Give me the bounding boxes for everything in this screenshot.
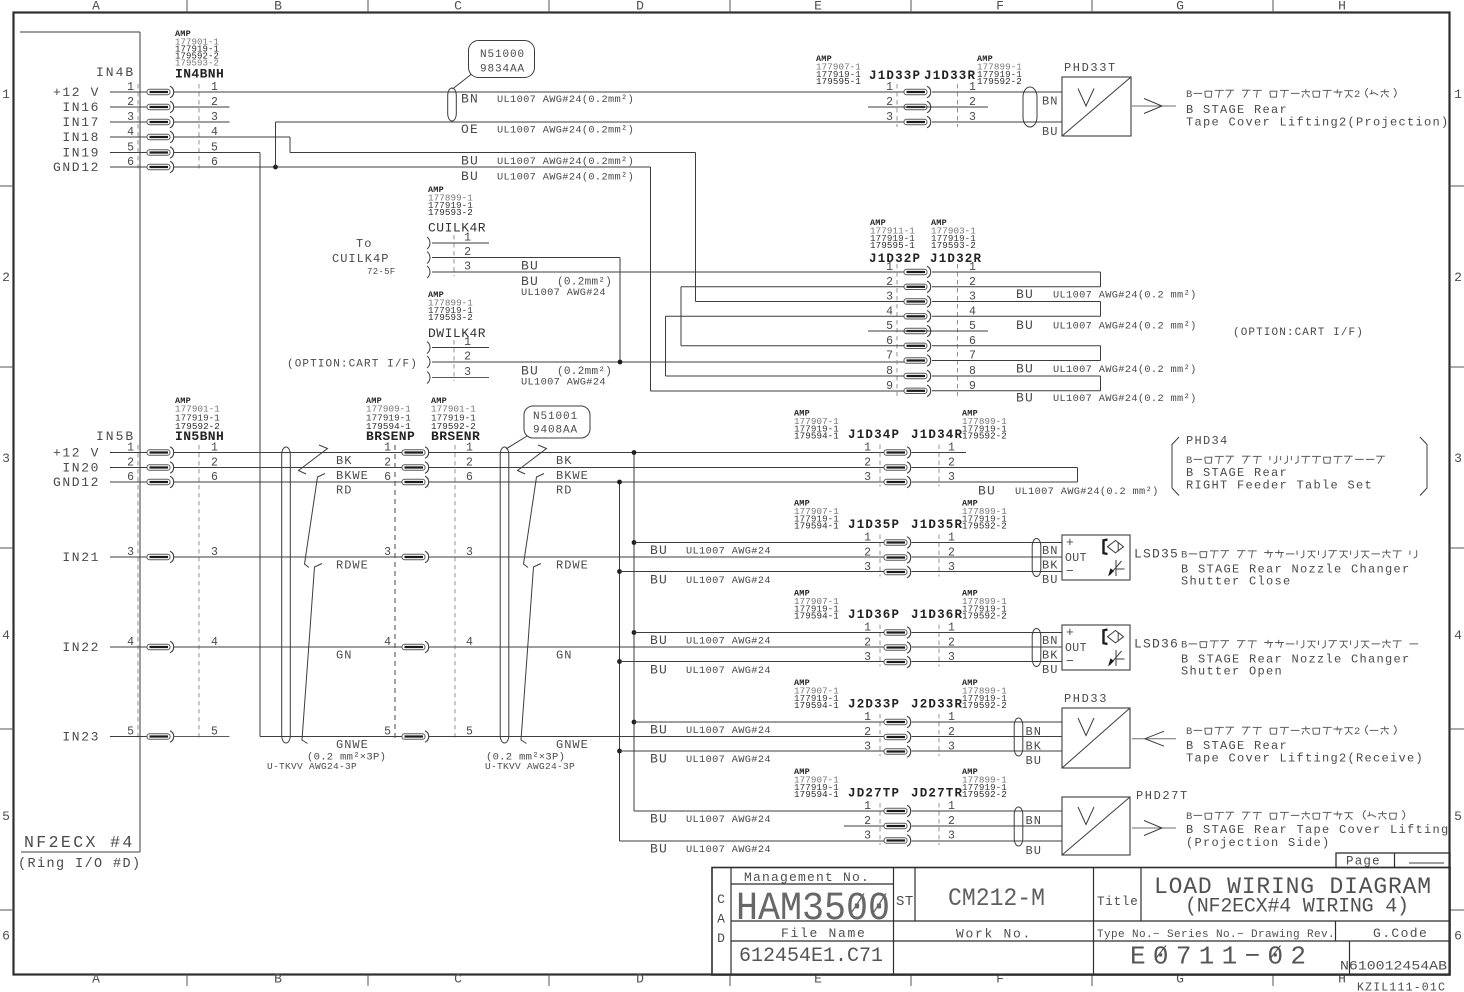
wire label BU at CUILK4R pin2 <box>521 259 539 274</box>
svg-text:1: 1 <box>886 81 893 94</box>
svg-text:J1D33P: J1D33P <box>869 69 921 83</box>
wire JD27TP pin1 feed <box>634 810 884 812</box>
svg-text:Shutter Open: Shutter Open <box>1181 665 1283 679</box>
connector J1D32 pins <box>886 261 976 397</box>
BRSEN pin 2 <box>384 457 473 474</box>
svg-text:BU: BU <box>461 154 479 169</box>
cable spec right U-TKVV <box>485 752 575 773</box>
svg-text:BN: BN <box>1042 95 1058 109</box>
IN4B pin 5 signal IN19 <box>62 142 218 161</box>
wire label BU J1D35 pin1 <box>650 543 771 558</box>
arrow PHD27T output <box>1132 821 1176 836</box>
wire IN23 stub <box>174 736 230 738</box>
wire J1D33 pin2 stub <box>868 106 988 108</box>
wire J1D32R loop pin3-pin4 <box>932 302 1101 317</box>
svg-text:179594-1: 179594-1 <box>794 521 839 532</box>
wire label BU J1D32R row4 <box>1016 391 1197 406</box>
wire to module row y=811 <box>912 810 1063 812</box>
svg-text:ST: ST <box>896 894 914 910</box>
cable bundle marks left <box>299 445 328 744</box>
wire to module row y=841 <box>912 840 1063 842</box>
svg-text:GND12: GND12 <box>53 160 100 175</box>
sheet code KZIL111-01C <box>1357 982 1446 992</box>
svg-text:3: 3 <box>1454 451 1462 466</box>
svg-text:UL1007 AWG#24(0.2 mm²): UL1007 AWG#24(0.2 mm²) <box>1053 320 1197 332</box>
svg-text:LSD36: LSD36 <box>1134 637 1179 652</box>
svg-text:(OPTION:CART I/F): (OPTION:CART I/F) <box>287 359 418 371</box>
label OPTION CART IF right <box>1233 327 1364 339</box>
svg-text:B: B <box>1181 550 1187 562</box>
connector IN5BNH part numbers <box>175 396 224 444</box>
svg-text:N51000: N51000 <box>480 49 525 61</box>
svg-text:H: H <box>1338 972 1346 987</box>
svg-text:BU: BU <box>1016 391 1034 406</box>
wire label BK right <box>556 454 572 468</box>
wire to module row y=571.5 <box>912 571 1063 573</box>
svg-text:+12 V: +12 V <box>53 85 100 100</box>
arrow PHD33T output <box>1132 99 1176 114</box>
wire label BU UL1007 row2 <box>461 169 634 184</box>
svg-text:5: 5 <box>1454 809 1462 824</box>
title NF2ECX4 WIRING 4 <box>1185 896 1409 919</box>
svg-text:BU: BU <box>978 484 996 499</box>
connector CUILK4R pins <box>427 232 471 279</box>
svg-text:3: 3 <box>886 111 893 124</box>
bracket PHD34 left <box>1172 437 1179 496</box>
wire J1D32P pin2-pin6 jumper <box>681 287 904 346</box>
wire J1D34R pin1 stub <box>912 452 967 454</box>
svg-text:UL1007 AWG#24: UL1007 AWG#24 <box>521 377 606 389</box>
svg-text:J1D35R: J1D35R <box>911 518 963 532</box>
IN5B pin 2 signal IN20 <box>62 457 218 476</box>
svg-text:JD27TR: JD27TR <box>911 787 963 801</box>
wire J1D32R loop pin8-pin9 <box>932 376 1101 391</box>
svg-text:179595-1: 179595-1 <box>870 240 915 251</box>
label OPTION CART IF left <box>287 359 418 371</box>
svg-text:−: − <box>1066 654 1074 669</box>
connector DWILK4R pins <box>427 336 471 384</box>
svg-text:179592-2: 179592-2 <box>962 789 1007 800</box>
svg-text:Tape Cover Lifting2(Receive): Tape Cover Lifting2(Receive) <box>1186 752 1424 766</box>
label Ring I/O #D <box>18 857 142 872</box>
svg-text:−: − <box>1066 564 1074 579</box>
svg-text:KZIL111-01C: KZIL111-01C <box>1357 982 1446 992</box>
wire RD distribution vertical <box>619 482 621 841</box>
svg-text:7: 7 <box>886 350 893 363</box>
svg-text:GND12: GND12 <box>53 475 100 490</box>
IN4B pin 2 signal IN16 <box>62 96 218 115</box>
svg-text:PHD33T: PHD33T <box>1064 61 1117 75</box>
wire IN22 to BRSENP pin4 <box>174 646 403 648</box>
svg-text:BU: BU <box>650 842 668 857</box>
svg-text:179592-2: 179592-2 <box>962 611 1007 622</box>
connector DWILK4R part numbers <box>428 290 486 341</box>
svg-text:BU: BU <box>650 812 668 827</box>
wire BRSENR pin5 GNWE <box>429 736 885 738</box>
svg-text:GN: GN <box>336 649 352 663</box>
wire label BU 0.2mm2 UL1007 at CUILK4R pin3 <box>521 274 612 299</box>
wire to module row y=557.0 <box>912 556 1063 558</box>
title zero slashes <box>1155 946 1281 960</box>
cable oval module input <box>1014 807 1023 846</box>
title block CAD letters <box>717 892 725 946</box>
svg-text:4: 4 <box>2 628 10 643</box>
svg-text:Page: Page <box>1346 855 1381 869</box>
wire label BU JD27T pin1 <box>650 812 771 827</box>
svg-text:3: 3 <box>948 561 955 574</box>
wire DWILK4R pin3 stub <box>432 377 489 379</box>
wire label BU J2D33 pin1 <box>650 723 771 738</box>
wire J1D36P pin1 feed <box>634 632 884 634</box>
svg-text:179594-1: 179594-1 <box>794 700 839 711</box>
title block frame <box>712 868 1450 976</box>
svg-text:BU: BU <box>650 543 668 558</box>
svg-text:J2D33P: J2D33P <box>848 698 900 712</box>
svg-text:(Projection Side): (Projection Side) <box>1186 836 1331 850</box>
svg-text:2: 2 <box>864 457 871 470</box>
wire label RD left <box>336 484 352 498</box>
connector J1D33 part numbers <box>816 54 1022 87</box>
svg-text:+: + <box>1066 535 1074 550</box>
svg-text:G: G <box>1176 0 1184 14</box>
wire label BK y=736.5 <box>1026 740 1042 754</box>
description PHD33 <box>1186 725 1424 765</box>
IN5B pin 5 signal IN23 <box>62 726 218 745</box>
junction dots BK vertical <box>632 450 637 724</box>
wire label BN y=811 <box>1026 814 1042 828</box>
connector J2D33 pins <box>864 711 955 757</box>
svg-text:F: F <box>996 972 1004 987</box>
wire BRSENR pin3 RDWE <box>429 556 885 558</box>
svg-text:B: B <box>274 972 282 987</box>
svg-text:UL1007 AWG#24(0.2mm²): UL1007 AWG#24(0.2mm²) <box>497 94 634 106</box>
svg-text:UL1007 AWG#24: UL1007 AWG#24 <box>686 844 771 856</box>
svg-text:BN: BN <box>1042 544 1058 558</box>
BRSEN pin 1 <box>384 442 473 459</box>
svg-text:BU: BU <box>1042 663 1058 677</box>
wire label BU J1D35 pin3 <box>650 573 771 588</box>
svg-text:3: 3 <box>864 651 871 664</box>
svg-text:1: 1 <box>2 87 10 102</box>
wire label BU at PHD33T <box>1042 125 1058 139</box>
svg-text:BKWE: BKWE <box>556 469 589 483</box>
icon LSD35 photo sensor <box>1104 540 1124 555</box>
IN4B pin 1 signal +12 V <box>53 81 218 100</box>
title 612454E1.C71 <box>739 945 883 968</box>
svg-text:A: A <box>717 912 725 927</box>
module LSD36 box <box>1062 625 1130 670</box>
wire J1D33R pin3 BU to PHD33T <box>932 121 1062 123</box>
wire to module row y=722 <box>912 721 1063 723</box>
svg-text:GNWE: GNWE <box>336 738 369 752</box>
connector J2D33 part numbers <box>794 678 1007 712</box>
svg-text:1: 1 <box>1454 87 1462 102</box>
wire label BK y=557.0 <box>1042 559 1058 573</box>
svg-text:+: + <box>1066 625 1074 640</box>
svg-text:U-TKVV AWG24-3P: U-TKVV AWG24-3P <box>267 761 357 772</box>
title Title label <box>1097 895 1139 909</box>
wire label BKWE right <box>556 469 589 483</box>
svg-text:2: 2 <box>864 726 871 739</box>
IN5B pin 3 signal IN21 <box>62 546 218 565</box>
svg-text:N610012454AB: N610012454AB <box>1340 959 1447 974</box>
wire CUILK4R pin1 stub <box>432 242 489 244</box>
wire +12V / BN net to J1D33P pin1 <box>174 91 905 93</box>
connector J1D36 part numbers <box>794 589 1007 623</box>
svg-text:A: A <box>92 972 100 987</box>
svg-text:2: 2 <box>864 637 871 650</box>
wire BRSENR pin1 BK distribution <box>429 452 885 454</box>
module PHD33T box <box>1062 77 1131 136</box>
description PHD27T <box>1186 810 1450 850</box>
wire JD27TP pin2 stub <box>844 825 884 827</box>
svg-text:Tape Cover Lifting2(Projection: Tape Cover Lifting2(Projection) <box>1186 116 1450 130</box>
svg-text:B: B <box>274 0 282 14</box>
svg-text:UL1007 AWG#24(0.2 mm²): UL1007 AWG#24(0.2 mm²) <box>1053 290 1197 302</box>
svg-text:C: C <box>454 0 462 14</box>
svg-text:4: 4 <box>384 636 391 649</box>
connector J1D36 pins <box>864 622 955 668</box>
wire JD27TP pin3 feed <box>620 840 885 842</box>
wire label BU J1D32R row3 <box>1016 362 1197 377</box>
wire IN19 net down to BRSENP pin5 row <box>174 153 261 737</box>
svg-text:3: 3 <box>864 741 871 754</box>
BRSEN pin 5 <box>384 726 473 743</box>
connector CUILK4R part numbers <box>428 185 486 236</box>
svg-text:J1D36P: J1D36P <box>848 608 900 622</box>
svg-text:G: G <box>1176 972 1184 987</box>
wire J1D32P pin5 stub <box>868 330 988 332</box>
IN4B pin 4 signal IN18 <box>62 126 218 145</box>
wire to module row y=826 <box>912 825 1063 827</box>
connector J1D34 pins <box>864 442 955 488</box>
svg-text:5: 5 <box>2 809 10 824</box>
svg-text:UL1007 AWG#24(0.2mm²): UL1007 AWG#24(0.2mm²) <box>497 156 634 168</box>
title Type No Series No Drawing Rev <box>1097 929 1335 941</box>
IN5B pin 6 signal GND12 <box>53 471 218 490</box>
svg-text:BU: BU <box>1016 318 1034 333</box>
wire label BKWE left <box>336 469 369 483</box>
svg-text:Shutter Close: Shutter Close <box>1181 575 1292 589</box>
svg-text:BN: BN <box>1042 634 1058 648</box>
svg-text:179592-2: 179592-2 <box>962 700 1007 711</box>
svg-text:2: 2 <box>948 547 955 560</box>
svg-text:RD: RD <box>336 484 352 498</box>
svg-text:179593-2: 179593-2 <box>428 207 473 218</box>
svg-text:1: 1 <box>384 442 391 455</box>
svg-text:(Ring I/O #D): (Ring I/O #D) <box>18 857 142 872</box>
svg-text:RIGHT Feeder Table Set: RIGHT Feeder Table Set <box>1186 479 1373 493</box>
cable oval module input <box>1014 718 1023 756</box>
svg-text:BN: BN <box>461 92 479 107</box>
cable oval BRSENP input <box>282 447 291 743</box>
svg-text:3: 3 <box>948 741 955 754</box>
module PHD33 box <box>1062 708 1130 768</box>
connector IN5B pin column lines <box>138 445 199 741</box>
svg-text:H: H <box>1338 0 1346 14</box>
svg-text:72-5F: 72-5F <box>367 267 396 277</box>
svg-text:CUILK4R: CUILK4R <box>428 221 486 236</box>
svg-text:RD: RD <box>556 484 572 498</box>
svg-text:PHD33: PHD33 <box>1064 692 1108 706</box>
svg-text:612454E1.C71: 612454E1.C71 <box>739 945 883 968</box>
svg-text:6: 6 <box>384 471 391 484</box>
connector J1D33 pins <box>886 81 976 128</box>
wire J2D33P pin1 feed <box>634 721 884 723</box>
svg-text:BU: BU <box>521 259 539 274</box>
svg-text:2: 2 <box>384 457 391 470</box>
svg-text:BU: BU <box>650 723 668 738</box>
svg-text:3: 3 <box>2 451 10 466</box>
svg-text:179594-1: 179594-1 <box>794 611 839 622</box>
svg-text:6: 6 <box>2 929 10 944</box>
svg-text:179595-1: 179595-1 <box>816 76 861 87</box>
svg-text:IN20: IN20 <box>62 461 100 476</box>
svg-text:2: 2 <box>948 726 955 739</box>
svg-text:U-TKVV AWG24-3P: U-TKVV AWG24-3P <box>485 761 575 772</box>
wire IN19 feed to BRSENP pin5 <box>260 736 402 738</box>
svg-text:B: B <box>1186 811 1192 823</box>
wire IN21 to BRSENP pin3 <box>174 556 403 558</box>
svg-text:BU: BU <box>1026 844 1042 858</box>
svg-text:B: B <box>1181 640 1187 652</box>
wire label BN y=632.5 <box>1042 634 1058 648</box>
svg-text:Management No.: Management No. <box>744 870 870 885</box>
svg-text:NF2ECX #4: NF2ECX #4 <box>24 833 135 852</box>
module LSD35 box <box>1062 535 1130 580</box>
svg-text:+12 V: +12 V <box>53 446 100 461</box>
connector IN4B pin column lines <box>138 84 199 172</box>
svg-text:BK: BK <box>556 454 572 468</box>
svg-text:A: A <box>92 0 100 14</box>
svg-text:B: B <box>1186 726 1192 738</box>
connector J1D32 part numbers <box>869 218 982 266</box>
cable oval J1D33R <box>1023 87 1037 127</box>
svg-text:File Name: File Name <box>781 926 867 941</box>
svg-text:UL1007 AWG#24: UL1007 AWG#24 <box>686 546 771 558</box>
svg-text:C: C <box>454 972 462 987</box>
description PHD33T english <box>1186 103 1450 130</box>
svg-text:2: 2 <box>2 270 10 285</box>
wire J1D32R loop pin1-pin2 <box>932 272 1101 287</box>
svg-text:B STAGE Rear Tape Cover Liftin: B STAGE Rear Tape Cover Lifting <box>1186 823 1450 837</box>
wire label BU J1D36 pin1 <box>650 633 771 648</box>
svg-text:4: 4 <box>1454 628 1462 643</box>
wire label RDWE right <box>556 559 589 573</box>
connector BRSEN pin column lines <box>395 445 455 741</box>
bracket PHD34 right <box>1420 437 1427 496</box>
svg-text:BU: BU <box>650 663 668 678</box>
cable oval at IN4B BN wire <box>448 88 457 121</box>
wire GND12 net to J1D32P pin9 <box>174 167 651 391</box>
icon LSD35 phototransistor <box>1108 560 1125 577</box>
wire J1D35P pin3 feed <box>620 571 885 573</box>
svg-text:BU: BU <box>1016 287 1034 302</box>
wire label BU J1D32R row2 <box>1016 318 1197 333</box>
svg-text:Type No.− Series No.− Drawing: Type No.− Series No.− Drawing Rev. <box>1097 929 1335 941</box>
svg-text:E: E <box>814 0 822 14</box>
svg-text:(OPTION:CART I/F): (OPTION:CART I/F) <box>1233 327 1364 339</box>
title N610012454AB <box>1340 959 1447 974</box>
cable oval module input <box>1032 539 1041 577</box>
svg-text:C: C <box>717 892 725 907</box>
svg-text:Title: Title <box>1097 895 1139 909</box>
wire J1D32P pin9 from GND12 net <box>651 390 905 392</box>
wire to module row y=632.5 <box>912 632 1063 634</box>
svg-text:2: 2 <box>1454 270 1462 285</box>
connector J1D35 pins <box>864 532 955 578</box>
wire J1D34R loop pin2-pin3 <box>912 468 1078 483</box>
svg-text:179592-2: 179592-2 <box>962 431 1007 442</box>
label PHD33T <box>1064 61 1117 75</box>
IN4B pin 6 signal GND12 <box>53 156 218 175</box>
svg-text:2: 2 <box>948 637 955 650</box>
svg-text:IN18: IN18 <box>62 130 100 145</box>
svg-text:BU: BU <box>1042 573 1058 587</box>
wire IN16 stub <box>174 106 230 108</box>
wire label BU 0.2mm2 UL1007 at DWILK4R <box>521 364 612 389</box>
svg-text:GNWE: GNWE <box>556 738 589 752</box>
title G Code <box>1373 926 1428 941</box>
svg-text:3: 3 <box>864 561 871 574</box>
connector BRSEN part numbers <box>366 396 480 444</box>
wire J1D32P pin3 from IN18 net <box>696 301 905 303</box>
wire label BU y=571.5 <box>1042 573 1058 587</box>
svg-text:G.Code: G.Code <box>1373 926 1428 941</box>
title E0711-02 <box>1130 942 1306 972</box>
svg-text:UL1007 AWG#24: UL1007 AWG#24 <box>686 754 771 766</box>
svg-text:5: 5 <box>384 726 391 739</box>
wire IN18 net to J1D32P pin3 <box>174 137 696 302</box>
wire IN5B pin1 to BRSENP <box>174 452 403 454</box>
svg-text:UL1007 AWG#24(0.2mm²): UL1007 AWG#24(0.2mm²) <box>497 172 634 184</box>
svg-text:J1D35P: J1D35P <box>848 518 900 532</box>
title Management No <box>744 870 870 885</box>
title ST <box>896 894 914 910</box>
svg-text:BK: BK <box>336 454 352 468</box>
cable spec left U-TKVV <box>267 752 386 773</box>
junction DWILK pin2 CUILK pin2 <box>618 360 623 365</box>
svg-text:9408AA: 9408AA <box>533 425 578 437</box>
junction dots RD vertical <box>617 480 622 754</box>
svg-text:UL1007 AWG#24(0.2mm²): UL1007 AWG#24(0.2mm²) <box>497 125 634 137</box>
svg-text:UL1007 AWG#24: UL1007 AWG#24 <box>521 287 606 299</box>
svg-text:IN4B: IN4B <box>96 65 135 80</box>
wire J1D32P pin4-pin8 jumper <box>666 316 905 376</box>
wire BRSENR pin2 BKWE <box>429 467 885 469</box>
wire label BU y=841 <box>1026 844 1042 858</box>
wire BRSENR pin6 RD distribution <box>429 481 885 483</box>
svg-text:179594-1: 179594-1 <box>794 789 839 800</box>
BRSEN pin 6 <box>384 471 473 488</box>
arrow PHD33 input <box>1132 731 1176 746</box>
description LSD36 <box>1134 637 1418 679</box>
wire to module row y=661.5 <box>912 661 1063 663</box>
svg-text:2: 2 <box>1354 89 1360 101</box>
svg-text:BK: BK <box>1042 649 1058 663</box>
wire label GNWE right <box>556 738 589 752</box>
svg-text:BU: BU <box>650 752 668 767</box>
junction GND12 / OE branch <box>273 165 278 170</box>
svg-text:BU: BU <box>1042 125 1058 139</box>
module PHD27T box <box>1062 797 1130 855</box>
title LOAD WIRING DIAGRAM <box>1154 874 1431 900</box>
wire J1D33R pin1 BN to PHD33T <box>932 91 1062 93</box>
svg-text:1: 1 <box>864 442 871 455</box>
IN4B pin 3 signal IN17 <box>62 111 218 130</box>
wire label BU J2D33 pin3 <box>650 752 771 767</box>
wire label GN right <box>556 649 572 663</box>
